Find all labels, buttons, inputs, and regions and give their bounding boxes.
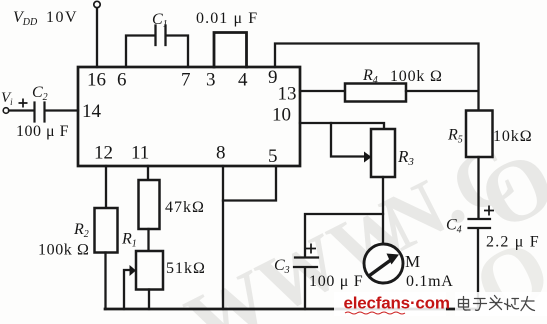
label C3 plus	[306, 244, 316, 254]
svg-text:elecfans·com: elecfans·com	[344, 294, 450, 313]
wire C2 to pin 14	[46, 109, 78, 111]
svg-text:51kΩ: 51kΩ	[166, 260, 206, 277]
wire pin 11 to 47k	[147, 166, 149, 180]
meter needle arrowhead	[387, 254, 400, 265]
wire pin 9 to top-right rail down to R5	[275, 44, 479, 111]
VDD terminal	[94, 1, 100, 7]
wire R5 to C4	[477, 157, 479, 219]
capacitor C4	[469, 218, 491, 220]
watermark chinese text 电子发烧友 drawn strokes	[459, 296, 535, 311]
svg-text:100k Ω: 100k Ω	[390, 68, 443, 85]
input terminal Vi	[3, 108, 9, 114]
ground rail wire	[105, 308, 478, 311]
svg-text:2.2 μ F: 2.2 μ F	[486, 234, 540, 251]
watermark red squiggle	[345, 312, 405, 314]
svg-text:100 μ F: 100 μ F	[16, 123, 69, 140]
capacitor C3	[295, 256, 318, 258]
svg-text:10: 10	[272, 105, 291, 126]
wire R3 bottom to meter	[382, 177, 384, 245]
capacitor 0.01uF loop pins 3-4	[214, 33, 247, 68]
svg-text:8: 8	[216, 143, 226, 164]
svg-text:0.01 μ F: 0.01 μ F	[196, 10, 258, 27]
wiper wire to R3	[331, 123, 364, 157]
wire Vi to C2	[9, 109, 33, 111]
wire 47k to R1	[147, 229, 149, 251]
capacitor C2	[33, 103, 35, 122]
svg-text:16: 16	[87, 70, 106, 91]
svg-text:100 μ F: 100 μ F	[309, 273, 363, 290]
wire pin 12 to R2	[105, 166, 107, 208]
resistor R3 (pot)	[371, 129, 395, 177]
wiper wire R1	[124, 270, 130, 309]
wire R4 to right rail	[406, 90, 478, 92]
wire pin 13 to R4	[300, 90, 345, 92]
svg-text:6: 6	[117, 70, 127, 91]
wire R1 to rail	[148, 290, 150, 310]
wire VDD to pin 16	[96, 8, 98, 67]
svg-text:14: 14	[82, 101, 102, 122]
wire R2 to rail	[104, 253, 106, 310]
resistor R2	[95, 208, 118, 253]
svg-text:4: 4	[238, 70, 248, 91]
resistor 47k	[139, 180, 160, 229]
svg-text:9: 9	[268, 67, 278, 88]
svg-text:M: M	[405, 252, 420, 271]
svg-text:13: 13	[278, 84, 297, 105]
R1 wiper arrowhead	[130, 265, 137, 276]
svg-text:7: 7	[181, 70, 191, 91]
capacitor C1 between pins 6 and 7	[126, 36, 154, 68]
watermark gray text	[173, 128, 547, 324]
plus sign C2	[19, 99, 28, 108]
svg-text:47kΩ: 47kΩ	[165, 199, 205, 216]
wire branch to C3	[305, 214, 383, 257]
wire C4 to ground rail	[477, 229, 479, 310]
IC U1 body	[78, 67, 300, 166]
resistor R5	[466, 111, 493, 158]
wire C3 to ground rail	[304, 268, 306, 309]
svg-text:12: 12	[94, 143, 113, 164]
wire pin 10 to R3 top	[300, 123, 384, 129]
svg-text:100k Ω: 100k Ω	[38, 242, 90, 259]
wire pin 8 to rail	[222, 166, 224, 309]
svg-text:10kΩ: 10kΩ	[493, 128, 533, 145]
label C4 plus	[484, 206, 494, 216]
resistor R4	[345, 84, 406, 102]
resistor R1 51k (pot)	[136, 251, 163, 290]
svg-text:10V: 10V	[46, 9, 78, 26]
wire pin 5 to pin 8 wire	[223, 166, 276, 201]
svg-text:0.1mA: 0.1mA	[406, 273, 454, 290]
meter M	[364, 244, 403, 283]
watermark white band	[334, 292, 446, 316]
svg-text:5: 5	[268, 146, 278, 167]
svg-text:11: 11	[131, 143, 149, 164]
R3 wiper arrowhead	[364, 152, 372, 163]
svg-text:3: 3	[206, 70, 216, 91]
